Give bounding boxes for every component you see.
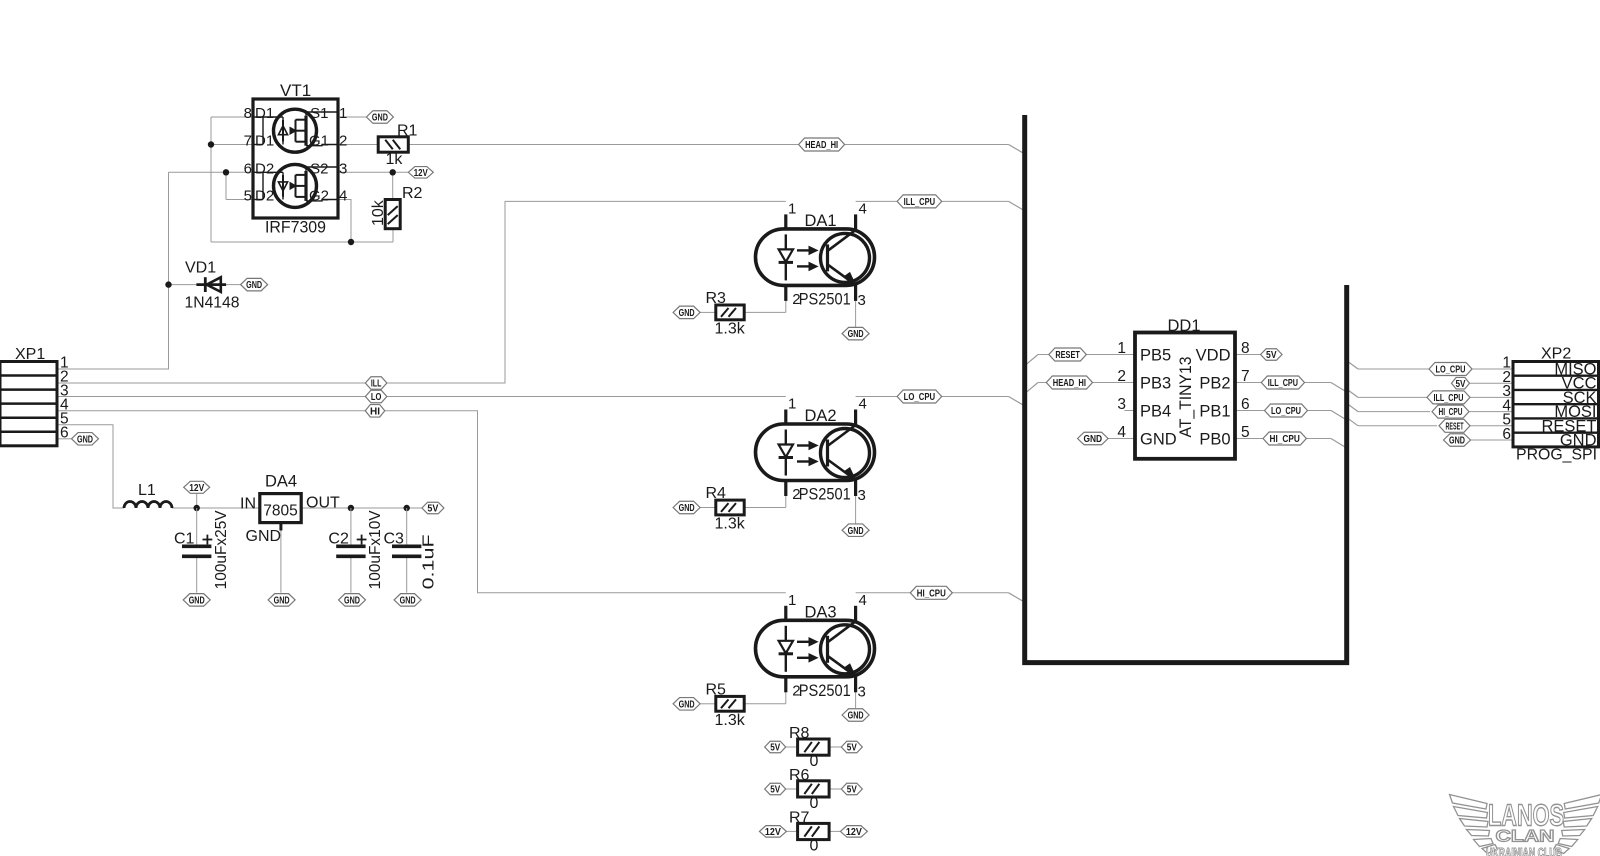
svg-text:R6: R6 [789,767,810,784]
net flag RESET at DD1 pin1 [1049,348,1087,361]
power flag GND at DA2 pin3 [842,524,869,537]
wire DD1 pin7 ILL_CPU to bus [1235,383,1345,392]
svg-text:12V: 12V [189,483,204,494]
net flag HI_CPU at XP2.4 [1432,405,1469,418]
svg-text:ILL_CPU: ILL_CPU [1434,393,1464,404]
junction 12V C1 [194,505,200,511]
svg-text:100uFx10V: 100uFx10V [367,510,384,590]
svg-text:5V: 5V [847,743,857,754]
svg-text:XP1: XP1 [15,346,45,363]
svg-text:R5: R5 [706,682,727,699]
svg-text:2: 2 [792,682,800,699]
wire HEAD_HI to DD1 pin2 [1026,383,1135,393]
svg-text:5V: 5V [770,743,780,754]
svg-text:G1: G1 [309,133,329,150]
svg-text:GND: GND [246,528,282,545]
power flag 5V at XP2.2 [1452,377,1470,389]
svg-text:D1: D1 [255,105,274,122]
svg-text:1: 1 [339,105,347,122]
power flag GND under C2 [339,594,366,607]
svg-text:1.3k: 1.3k [715,321,746,338]
svg-text:12V: 12V [414,168,428,179]
svg-text:RESET: RESET [1446,421,1464,432]
wire DA1 pin3 to GND [855,300,857,327]
svg-text:1: 1 [788,396,796,413]
svg-text:4: 4 [1117,424,1126,441]
svg-text:1k: 1k [386,151,404,168]
svg-text:CLAN: CLAN [1496,827,1555,846]
svg-text:0.1uF: 0.1uF [421,534,438,589]
power flag GND at VD1 [241,278,268,291]
svg-text:PS2501: PS2501 [799,682,851,700]
net flag RESET at XP2.5 [1439,419,1470,432]
junction G2 bottom [348,239,354,245]
power flag 5V right of R8 [841,741,862,753]
svg-text:R3: R3 [706,290,727,307]
power flag GND at S1 [366,111,393,124]
svg-text:0: 0 [810,795,819,812]
inductor L1 [124,482,172,508]
svg-text:ILL_CPU: ILL_CPU [904,197,936,208]
power flag 5V after C3 [422,502,444,514]
wire XP1.5 to L1 [57,425,124,508]
resistor R2 [370,185,423,229]
net flag HI_CPU at DD1 pin5 [1263,432,1306,445]
net flag HI_CPU on DA3 wire [910,586,952,599]
svg-text:R8: R8 [789,725,810,742]
svg-text:RESET: RESET [1055,350,1080,361]
power flag GND under DA4 [268,594,295,607]
svg-text:7805: 7805 [263,503,297,520]
net flag ILL_CPU at DD1 pin7 [1261,376,1304,389]
svg-text:HI_CPU: HI_CPU [917,588,946,599]
wire S2 to 12V and R2 [338,172,408,199]
wire R8 leads [786,746,841,748]
wire DD1 pin8 to 5V [1235,354,1261,356]
svg-text:GND: GND [679,503,695,514]
svg-text:5: 5 [1241,424,1250,441]
power flag 5V left of R8 [765,741,786,753]
svg-text:6: 6 [1502,426,1511,443]
svg-text:D1: D1 [255,133,274,150]
power flag 12V above C1 [184,481,210,494]
svg-text:PS2501: PS2501 [799,290,851,308]
power flag 5V right of R6 [841,783,862,795]
svg-text:ILL: ILL [371,379,382,390]
net flag ILL at XP1.2 [365,377,387,390]
svg-text:VDD: VDD [1196,347,1231,365]
wire VT1 S1 to GND [338,116,366,118]
wire DA2 pin2 R4 GND [700,496,785,508]
optocoupler DA2 PS2501 [756,396,875,505]
svg-text:GND: GND [344,596,360,607]
junction 5V C2 [348,505,354,511]
svg-text:3: 3 [1117,396,1126,413]
net flag HEAD_HI at DD1 pin2 [1046,376,1092,389]
voltage regulator DA4 7805 [240,473,340,546]
svg-text:R4: R4 [706,485,727,502]
wire DA3 pin3 to GND [855,692,857,708]
wire LO net XP1.3 to DA2 pin1 [57,396,786,398]
svg-text:2: 2 [792,486,800,503]
net flag LO_CPU at DD1 pin6 [1265,404,1308,417]
svg-text:GND: GND [274,596,290,607]
svg-text:3: 3 [858,683,866,700]
wire bus to LO_CPU XP2.1 [1349,362,1514,369]
wire DA3 pin4 HI_CPU to bus [856,593,1023,601]
net flag ILL_CPU at XP2.3 [1427,391,1470,404]
power flag GND at XP1.6 [72,433,99,446]
svg-text:GND: GND [848,711,864,722]
wire VD1 leads [169,284,241,286]
svg-text:6: 6 [244,160,252,177]
svg-text:UKRAINIAN CLUB: UKRAINIAN CLUB [1486,846,1562,856]
svg-text:G2: G2 [309,188,329,205]
svg-text:DD1: DD1 [1168,317,1201,335]
svg-text:5V: 5V [1266,350,1277,361]
net flag HEAD_HI on R1 wire [799,138,845,151]
logo LANOS CLAN [1450,795,1600,856]
diode VD1 1N4148 [185,260,240,312]
svg-text:5V: 5V [1456,379,1466,390]
svg-text:4: 4 [859,396,867,413]
net flag LO at XP1.3 [365,390,387,403]
svg-text:GND: GND [848,526,864,537]
svg-text:10k: 10k [370,199,387,226]
svg-text:1.3k: 1.3k [715,712,746,729]
wire GND to XP2.6 [1470,439,1513,441]
wire DA3 pin2 R5 GND [700,692,785,704]
wire DD1 pin6 LO_CPU to bus [1235,411,1345,420]
power flag GND at R4 [673,501,700,514]
wire bus to ILL_CPU XP2.3 [1349,390,1514,397]
svg-text:2: 2 [1117,368,1126,385]
svg-text:HI_CPU: HI_CPU [1270,434,1300,445]
svg-text:2: 2 [339,133,347,150]
svg-text:3: 3 [858,487,866,504]
svg-text:OUT: OUT [306,495,340,512]
svg-text:DA1: DA1 [805,212,837,230]
wire R6 leads [786,788,841,790]
svg-text:GND: GND [1140,431,1177,449]
svg-text:4: 4 [859,200,867,217]
resistor R8 [789,725,829,770]
svg-text:LO_CPU: LO_CPU [1436,365,1466,376]
svg-text:D2: D2 [255,160,274,177]
svg-text:PB4: PB4 [1140,403,1171,421]
capacitor C3 [384,508,438,593]
svg-text:D2: D2 [255,188,274,205]
net flag LO_CPU at XP2.1 [1429,363,1472,376]
svg-text:7: 7 [244,133,252,150]
connector XP2 PROG_SPI [1502,346,1598,464]
svg-text:VD1: VD1 [185,260,216,277]
svg-text:GND: GND [679,699,695,710]
svg-text:AT_TINY13: AT_TINY13 [1177,357,1195,438]
wire XP1.1 to D2 net vertical [57,172,169,369]
svg-text:PB5: PB5 [1140,347,1171,365]
svg-text:GND: GND [189,596,205,607]
wire HI net XP1.4 to DA3 pin1 [57,411,786,593]
wire ILL net XP1.2 to DA1 pin1 [57,201,786,383]
power flag GND at XP2.6 [1444,434,1471,447]
wire bus to RESET XP2.5 [1349,419,1514,426]
svg-text:2: 2 [792,291,800,308]
wire DA2 pin4 LO_CPU to bus [856,397,1023,405]
svg-text:5: 5 [244,188,252,205]
svg-text:IN: IN [240,496,256,513]
wire DA1 pin4 ILL_CPU to bus [856,201,1023,209]
junction 5V C3 [404,505,410,511]
svg-text:R1: R1 [397,123,418,140]
svg-text:C2: C2 [328,531,349,548]
power flag 5V at DD1 pin8 [1261,349,1283,361]
resistor R6 [789,767,829,812]
svg-text:8: 8 [1241,340,1250,357]
svg-text:PROG_SPI: PROG_SPI [1516,447,1597,464]
svg-text:GND: GND [1084,434,1103,445]
IC DD1 AT_TINY13 [1117,317,1249,459]
net flag LO_CPU on DA2 wire [897,390,942,403]
svg-text:IRF7309: IRF7309 [265,219,326,237]
svg-text:GND: GND [1449,436,1465,447]
svg-text:5V: 5V [847,785,857,796]
wire DA2 pin3 to GND [855,496,857,525]
svg-text:ILL_CPU: ILL_CPU [1268,378,1298,389]
svg-text:PB0: PB0 [1199,431,1230,449]
wire bus to HI_CPU XP2.4 [1349,405,1514,412]
capacitor C1 [174,508,230,593]
svg-text:PB3: PB3 [1140,375,1171,393]
svg-text:3: 3 [858,292,866,309]
wire DA4 GND lead [280,531,282,593]
power flag GND at R5 [673,698,700,711]
net flag HI at XP1.4 [365,405,385,418]
svg-text:6: 6 [60,425,69,442]
svg-text:C1: C1 [174,531,195,548]
wire 12V rail L1 to DA4 IN [172,494,260,508]
svg-text:0: 0 [810,753,819,770]
wire GND to DD1 pin4 [1108,438,1135,440]
wire R7 leads [787,830,841,832]
svg-text:DA4: DA4 [265,473,297,491]
optocoupler DA1 PS2501 [756,200,875,309]
svg-text:1.3k: 1.3k [715,516,746,533]
wire 5V to XP2.2 [1469,382,1513,384]
svg-text:0: 0 [810,838,819,855]
wire VT1 D2 net [169,172,254,199]
svg-text:5V: 5V [427,504,438,515]
wire DA1 pin2 R3 GND [700,300,785,312]
power flag GND at DA1 pin3 [842,327,869,340]
wire RESET to DD1 pin1 [1026,355,1135,365]
svg-text:DA3: DA3 [805,603,837,621]
svg-text:8: 8 [244,105,252,122]
power flag GND at DA3 pin3 [842,709,869,722]
svg-text:PS2501: PS2501 [799,486,851,504]
power flag 12V left of R7 [759,826,786,838]
wire DD1 pin3 stub [1125,410,1136,412]
svg-text:HEAD_HI: HEAD_HI [805,140,838,151]
junction VD1 tap [165,281,171,287]
svg-text:4: 4 [339,188,347,205]
svg-text:R2: R2 [402,185,423,202]
power flag 5V left of R6 [765,783,786,795]
svg-text:1: 1 [788,200,796,217]
power flag 12V at S2 [408,167,433,179]
resistor R7 [789,809,829,854]
svg-text:PB2: PB2 [1199,375,1230,393]
power flag GND under C1 [183,594,210,607]
svg-text:5V: 5V [770,785,780,796]
svg-text:6: 6 [1241,396,1250,413]
svg-text:100uFx25V: 100uFx25V [213,510,230,590]
svg-text:GND: GND [679,308,695,319]
junction D2 tie [223,169,229,175]
capacitor C2 [328,508,384,593]
svg-text:GND: GND [848,329,864,340]
svg-text:7: 7 [1241,368,1250,385]
svg-text:1N4148: 1N4148 [185,295,240,312]
svg-text:12V: 12V [765,827,781,838]
junction 12V R2 [390,169,396,175]
transistor VT1 IRF7309 [244,81,348,237]
resistor R3 [706,290,746,338]
wire VT1 D1 net [211,117,393,242]
resistor R1 [378,123,417,169]
junction D1 tie [208,141,214,147]
svg-text:DA2: DA2 [805,407,837,425]
svg-text:4: 4 [859,592,867,609]
svg-text:GND: GND [400,596,416,607]
svg-text:L1: L1 [138,482,156,499]
svg-text:HI_CPU: HI_CPU [1439,407,1463,418]
optocoupler DA3 PS2501 [756,592,875,701]
svg-text:PB1: PB1 [1199,403,1230,421]
svg-text:C3: C3 [384,531,405,548]
power flag GND under C3 [394,594,421,607]
svg-text:12V: 12V [846,827,862,838]
svg-text:HEAD_HI: HEAD_HI [1053,378,1086,389]
bus U-shaped CPU bus [1025,115,1347,663]
svg-text:3: 3 [339,160,347,177]
svg-text:S2: S2 [310,160,328,177]
svg-text:1: 1 [1117,340,1126,357]
resistor R5 [706,682,746,730]
svg-text:R7: R7 [789,809,810,826]
svg-text:GND: GND [372,113,388,124]
resistor R4 [706,485,746,533]
wire HEAD_HI from G1 through R1 to bus [338,145,1023,153]
wire DD1 pin5 HI_CPU to bus [1235,439,1345,448]
connector XP1 [0,346,69,446]
wire XP1.6 to GND [57,438,71,440]
power flag GND at R3 [673,306,700,319]
svg-text:GND: GND [246,280,262,291]
svg-text:LO_CPU: LO_CPU [1271,406,1301,417]
svg-text:S1: S1 [310,105,328,122]
svg-text:LO_CPU: LO_CPU [904,392,936,403]
svg-text:1: 1 [788,592,796,609]
svg-text:GND: GND [77,434,93,445]
svg-text:VT1: VT1 [280,81,311,100]
svg-text:LO: LO [371,392,382,403]
power flag GND at DD1 pin4 [1078,432,1109,445]
svg-text:HI: HI [370,406,380,417]
net flag ILL_CPU on DA1 wire [897,195,942,208]
power flag 12V right of R7 [840,826,867,838]
wire DA4 OUT to 5V [301,507,422,509]
